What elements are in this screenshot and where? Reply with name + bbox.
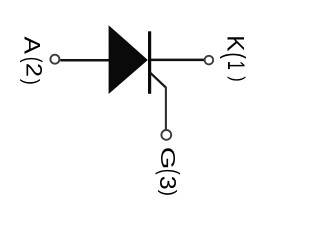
gate diagonal wire <box>150 73 166 88</box>
gate terminal circle <box>161 130 171 140</box>
svg-text:K: K <box>222 35 249 51</box>
svg-text:): ) <box>227 76 249 81</box>
svg-text:): ) <box>157 190 180 196</box>
label G(3) gate pin 3 <box>154 147 184 196</box>
svg-text:3: 3 <box>154 176 180 190</box>
label K(1) cathode pin 1 <box>219 35 249 82</box>
thyristor triangle D1 <box>109 25 148 94</box>
svg-text:(: ( <box>155 169 184 175</box>
label A(2) anode pin 2 <box>19 37 46 85</box>
svg-text:(: ( <box>219 52 249 59</box>
cathode bar <box>148 31 151 94</box>
svg-text:G: G <box>156 147 178 170</box>
cathode terminal circle <box>205 56 214 65</box>
svg-text:2: 2 <box>21 63 46 77</box>
svg-text:A: A <box>19 37 43 54</box>
svg-text:): ) <box>19 79 43 85</box>
anode wire <box>60 59 109 62</box>
svg-text:1: 1 <box>222 61 249 70</box>
svg-text:(: ( <box>19 57 45 63</box>
anode terminal circle <box>50 55 59 64</box>
cathode wire <box>151 59 204 62</box>
gate vertical wire <box>165 87 167 130</box>
